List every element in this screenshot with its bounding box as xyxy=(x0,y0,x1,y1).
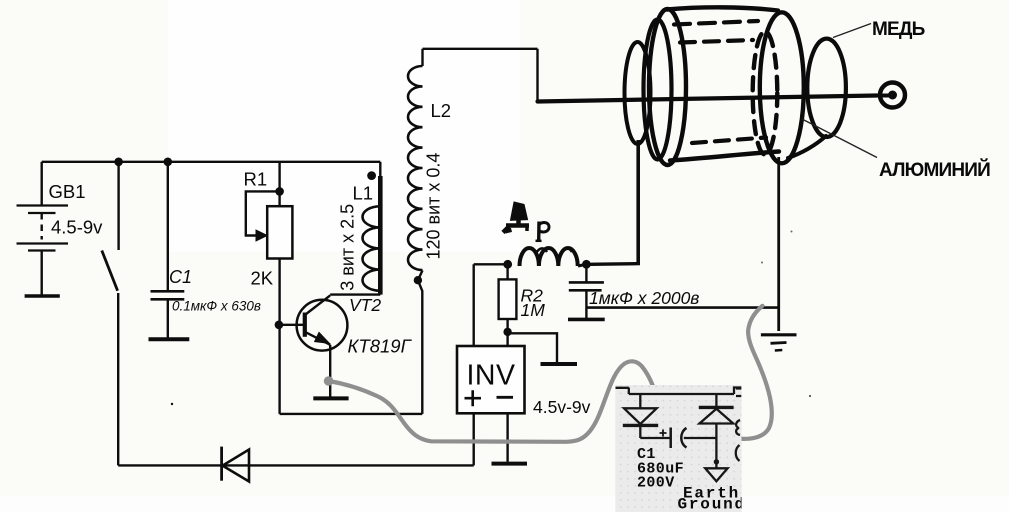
svg-text:2K: 2K xyxy=(251,268,274,289)
svg-text:КТ819Г: КТ819Г xyxy=(348,336,413,357)
svg-text:L2: L2 xyxy=(431,100,452,121)
svg-text:АЛЮМИНИЙ: АЛЮМИНИЙ xyxy=(879,159,990,181)
svg-text:GB1: GB1 xyxy=(49,181,86,202)
svg-text:VT2: VT2 xyxy=(349,295,381,315)
svg-text:4.5v-9v: 4.5v-9v xyxy=(533,397,591,417)
svg-text:120 вит x 0.4: 120 вит x 0.4 xyxy=(424,153,444,260)
svg-text:L1: L1 xyxy=(353,183,374,204)
svg-text:3 вит x 2.5: 3 вит x 2.5 xyxy=(338,204,358,291)
svg-text:0.1мкФ x 630в: 0.1мкФ x 630в xyxy=(172,299,261,314)
svg-text:Ground: Ground xyxy=(678,496,746,512)
svg-text:R1: R1 xyxy=(244,169,268,190)
svg-text:1мкФ x 2000в: 1мкФ x 2000в xyxy=(589,288,699,308)
svg-text:МЕДЬ: МЕДЬ xyxy=(872,19,925,40)
svg-text:C1: C1 xyxy=(169,267,192,287)
svg-text:1M: 1M xyxy=(521,300,546,320)
svg-text:200V: 200V xyxy=(637,475,675,492)
svg-text:4.5-9v: 4.5-9v xyxy=(51,217,103,238)
svg-text:INV: INV xyxy=(467,360,516,392)
